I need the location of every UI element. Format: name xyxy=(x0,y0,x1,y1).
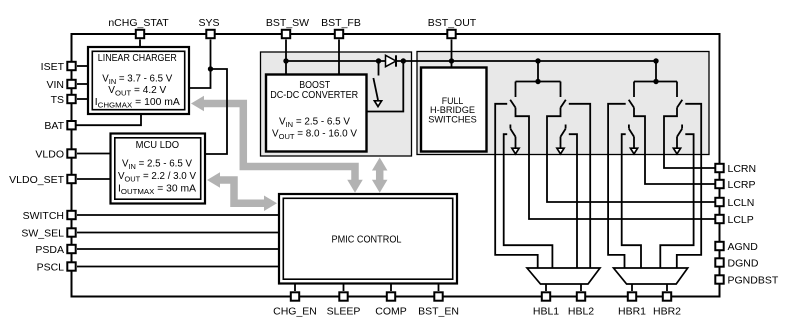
svg-text:LCRN: LCRN xyxy=(728,163,757,175)
wire H-bridge output leg xyxy=(664,108,720,168)
wire PSDA pin to PMIC CONTROL xyxy=(77,248,279,250)
wire boost feedback: BST_OUT node down and into BOOST converter right side xyxy=(367,61,404,112)
control bus arrow: PMIC CONTROL to LINEAR CHARGER (gray, double-headed) xyxy=(202,104,355,181)
svg-text:PMIC CONTROL: PMIC CONTROL xyxy=(332,234,402,245)
pin HBR1 xyxy=(628,292,636,300)
boost converter section (shaded region) xyxy=(261,52,412,156)
wire mux M1 to HBL2 pin xyxy=(580,284,582,291)
wire BST_FB pin down into BOOST converter xyxy=(338,40,340,75)
wire switch side contact stub xyxy=(608,104,626,268)
pin HBL1 xyxy=(542,292,550,300)
node left bridge feed xyxy=(535,58,540,63)
pin nCHG_STAT xyxy=(136,30,144,38)
wire SW_SEL pin to PMIC CONTROL xyxy=(77,232,279,234)
switch high-side at x=634 xyxy=(633,82,635,98)
pin BST_OUT xyxy=(447,30,455,38)
wire right H-bridge top rail xyxy=(634,81,677,83)
block U2 MCU LDO (double-border box) xyxy=(111,134,206,204)
arrow to power ground (hollow arrowhead) xyxy=(630,148,637,154)
diode D1 boost rectifier xyxy=(386,55,397,66)
pin LCLN xyxy=(715,198,723,206)
wire node A to LINEAR CHARGER output (right side) xyxy=(189,69,211,88)
svg-text:COMP: COMP xyxy=(375,306,407,318)
wire VIN pin to LINEAR CHARGER xyxy=(77,83,88,85)
svg-text:VIN: VIN xyxy=(46,79,64,91)
switch low-side at x=515.5 xyxy=(509,125,511,129)
switch high-side at x=515.5 xyxy=(515,82,517,98)
wire H-bridge output leg xyxy=(516,108,720,219)
pin BST_EN xyxy=(434,292,442,300)
wire diode D1 cathode to BST_OUT bus xyxy=(396,60,452,62)
switch low-side at x=560.5 xyxy=(565,125,567,129)
pin SW_SEL xyxy=(67,228,75,236)
wire BAT pin to LINEAR CHARGER bottom xyxy=(77,114,142,125)
wire PMIC CONTROL to CHG_EN pin xyxy=(294,284,296,292)
wire node A to MCU LDO input (right side) xyxy=(205,69,227,154)
wire BST_SW node to boost switch node xyxy=(286,60,386,62)
arrow to power ground (hollow arrowhead) xyxy=(512,148,519,154)
pin VLDO_SET xyxy=(67,175,75,183)
full H-bridge section (shaded region) xyxy=(417,52,709,155)
svg-text:PGNDBST: PGNDBST xyxy=(728,275,779,287)
svg-text:HBR1: HBR1 xyxy=(618,306,646,318)
svg-text:nCHG_STAT: nCHG_STAT xyxy=(108,17,169,29)
wire PMIC CONTROL to COMP pin xyxy=(390,284,392,292)
pin LCRP xyxy=(715,180,723,188)
wire bus drop to right H-bridge rail xyxy=(655,61,657,82)
pin DGND xyxy=(715,258,723,266)
svg-text:BST_FB: BST_FB xyxy=(321,17,361,29)
wire SYS pin down to node A xyxy=(210,40,212,70)
wire switch side contact stub to mux xyxy=(622,134,641,268)
pin VIN xyxy=(67,80,75,88)
block U3 BOOST DC-DC CONVERTER (box) xyxy=(266,75,367,152)
mux M1 output selector for HBL1/HBL2 (trapezoid) xyxy=(527,268,600,284)
wire switch side contact stub xyxy=(495,104,538,268)
pin ISET xyxy=(67,62,75,70)
svg-text:SWITCH: SWITCH xyxy=(23,210,64,222)
svg-text:AGND: AGND xyxy=(728,241,759,253)
pin PGNDBST xyxy=(715,275,723,283)
node boost switch junction xyxy=(376,58,381,63)
wire VLDO_SET pin to MCU LDO xyxy=(77,178,111,180)
wire PMIC CONTROL to SLEEP pin xyxy=(343,284,345,292)
block U5 PMIC CONTROL (double-border box) xyxy=(279,194,457,284)
svg-text:LINEAR CHARGER: LINEAR CHARGER xyxy=(98,53,177,64)
svg-text:SWITCHES: SWITCHES xyxy=(428,114,477,125)
wire mux M2 to HBR2 pin xyxy=(666,284,668,291)
pin CHG_EN xyxy=(291,292,299,300)
arrow to power ground (hollow arrowhead) xyxy=(557,148,564,154)
wire SWITCH pin to PMIC CONTROL xyxy=(77,214,279,216)
wire H-bridge output leg xyxy=(547,108,720,202)
node right bridge feed xyxy=(653,58,658,63)
arrow to power ground (hollow arrowhead) xyxy=(673,148,680,154)
pin SYS xyxy=(206,30,214,38)
IC boundary box xyxy=(72,34,720,297)
svg-text:ISET: ISET xyxy=(41,61,65,73)
node left bridge rail tee xyxy=(535,79,540,84)
svg-text:SLEEP: SLEEP xyxy=(327,306,361,318)
wire switch side contact stub to mux xyxy=(660,134,693,268)
wire left H-bridge top rail xyxy=(516,81,561,83)
pin VLDO xyxy=(67,149,75,157)
control bus arrow: PMIC CONTROL to MCU LDO (gray, double-headed) xyxy=(219,180,266,203)
wire H-bridge output leg xyxy=(634,108,720,184)
svg-text:TS: TS xyxy=(51,94,64,106)
wire TS pin to LINEAR CHARGER xyxy=(77,98,88,100)
svg-text:HBR2: HBR2 xyxy=(653,306,681,318)
svg-text:CHG_EN: CHG_EN xyxy=(273,306,317,318)
svg-text:PSCL: PSCL xyxy=(37,262,65,274)
node diode cathode junction xyxy=(401,58,406,63)
svg-text:VLDO_SET: VLDO_SET xyxy=(9,174,64,186)
svg-text:DC-DC CONVERTER: DC-DC CONVERTER xyxy=(270,90,358,101)
pin BST_SW xyxy=(282,30,290,38)
svg-text:BST_EN: BST_EN xyxy=(418,306,459,318)
svg-text:DGND: DGND xyxy=(728,258,759,270)
pin HBR2 xyxy=(663,292,671,300)
pin PSCL xyxy=(67,262,75,270)
node right bridge rail tee xyxy=(653,79,658,84)
wire VLDO pin to MCU LDO xyxy=(77,153,111,155)
wire switch side contact stub xyxy=(677,104,701,268)
wire switch side contact stub xyxy=(569,104,590,268)
svg-text:SYS: SYS xyxy=(198,17,219,29)
wire mux M2 to HBR1 pin xyxy=(631,284,633,291)
block U4 FULL H-BRIDGE SWITCHES (label box) xyxy=(421,68,487,152)
node BST_OUT junction xyxy=(449,58,454,63)
pin BAT xyxy=(67,121,75,129)
svg-text:LCRP: LCRP xyxy=(728,179,756,191)
svg-text:LCLP: LCLP xyxy=(728,214,754,226)
wire PSCL pin to PMIC CONTROL xyxy=(77,266,279,268)
control bus arrow: PMIC CONTROL to BOOST converter (gray, double-headed vertical) xyxy=(376,167,384,184)
switch low-side at x=677 xyxy=(681,125,683,129)
pin HBL2 xyxy=(577,292,585,300)
switch high-side at x=677 xyxy=(676,82,678,98)
svg-text:HBL1: HBL1 xyxy=(533,306,559,318)
wire nCHG_STAT pin to LINEAR CHARGER top xyxy=(139,40,141,48)
svg-text:HBL2: HBL2 xyxy=(568,306,594,318)
pin TS xyxy=(67,95,75,103)
svg-text:LCLN: LCLN xyxy=(728,197,755,209)
pin SLEEP xyxy=(339,292,347,300)
arrow: boost switch current direction (hollow arrowhead down) xyxy=(374,101,381,107)
wire PMIC CONTROL to BST_EN pin xyxy=(438,284,440,292)
wire bus drop to left H-bridge rail xyxy=(537,61,539,82)
pin SWITCH xyxy=(67,211,75,219)
svg-text:MCU LDO: MCU LDO xyxy=(136,140,180,151)
pin COMP xyxy=(387,292,395,300)
svg-text:BST_SW: BST_SW xyxy=(266,17,309,29)
switch high-side at x=560.5 xyxy=(560,82,562,98)
block U1 LINEAR CHARGER (double-border box) xyxy=(88,47,189,114)
wire BST_OUT bus across H-bridge section xyxy=(452,60,657,62)
node A (SYS) xyxy=(208,66,213,71)
svg-text:BST_OUT: BST_OUT xyxy=(428,17,477,29)
svg-text:BAT: BAT xyxy=(44,120,64,132)
pin PSDA xyxy=(67,245,75,253)
wire switch side contact stub to mux xyxy=(504,134,553,268)
mux M2 output selector for HBR1/HBR2 (trapezoid) xyxy=(614,268,688,284)
switch S0 boost internal switch (blade and contact) xyxy=(378,61,380,76)
wire mux M1 to HBL1 pin xyxy=(545,284,547,291)
node BST_SW junction xyxy=(283,58,288,63)
pin BST_FB xyxy=(335,30,343,38)
pin LCRN xyxy=(715,164,723,172)
svg-text:SW_SEL: SW_SEL xyxy=(21,228,64,240)
pin LCLP xyxy=(715,215,723,223)
wire BST_OUT pin down to FULL H-BRIDGE SWITCHES box xyxy=(451,40,453,68)
switch low-side at x=634 xyxy=(628,125,630,129)
wire switch side contact stub to mux xyxy=(569,134,577,268)
pin AGND xyxy=(715,242,723,250)
wire ISET pin to LINEAR CHARGER xyxy=(77,65,88,67)
svg-text:VLDO: VLDO xyxy=(35,149,64,161)
svg-text:PSDA: PSDA xyxy=(35,244,64,256)
wire BST_SW pin down into BOOST converter xyxy=(285,40,287,75)
